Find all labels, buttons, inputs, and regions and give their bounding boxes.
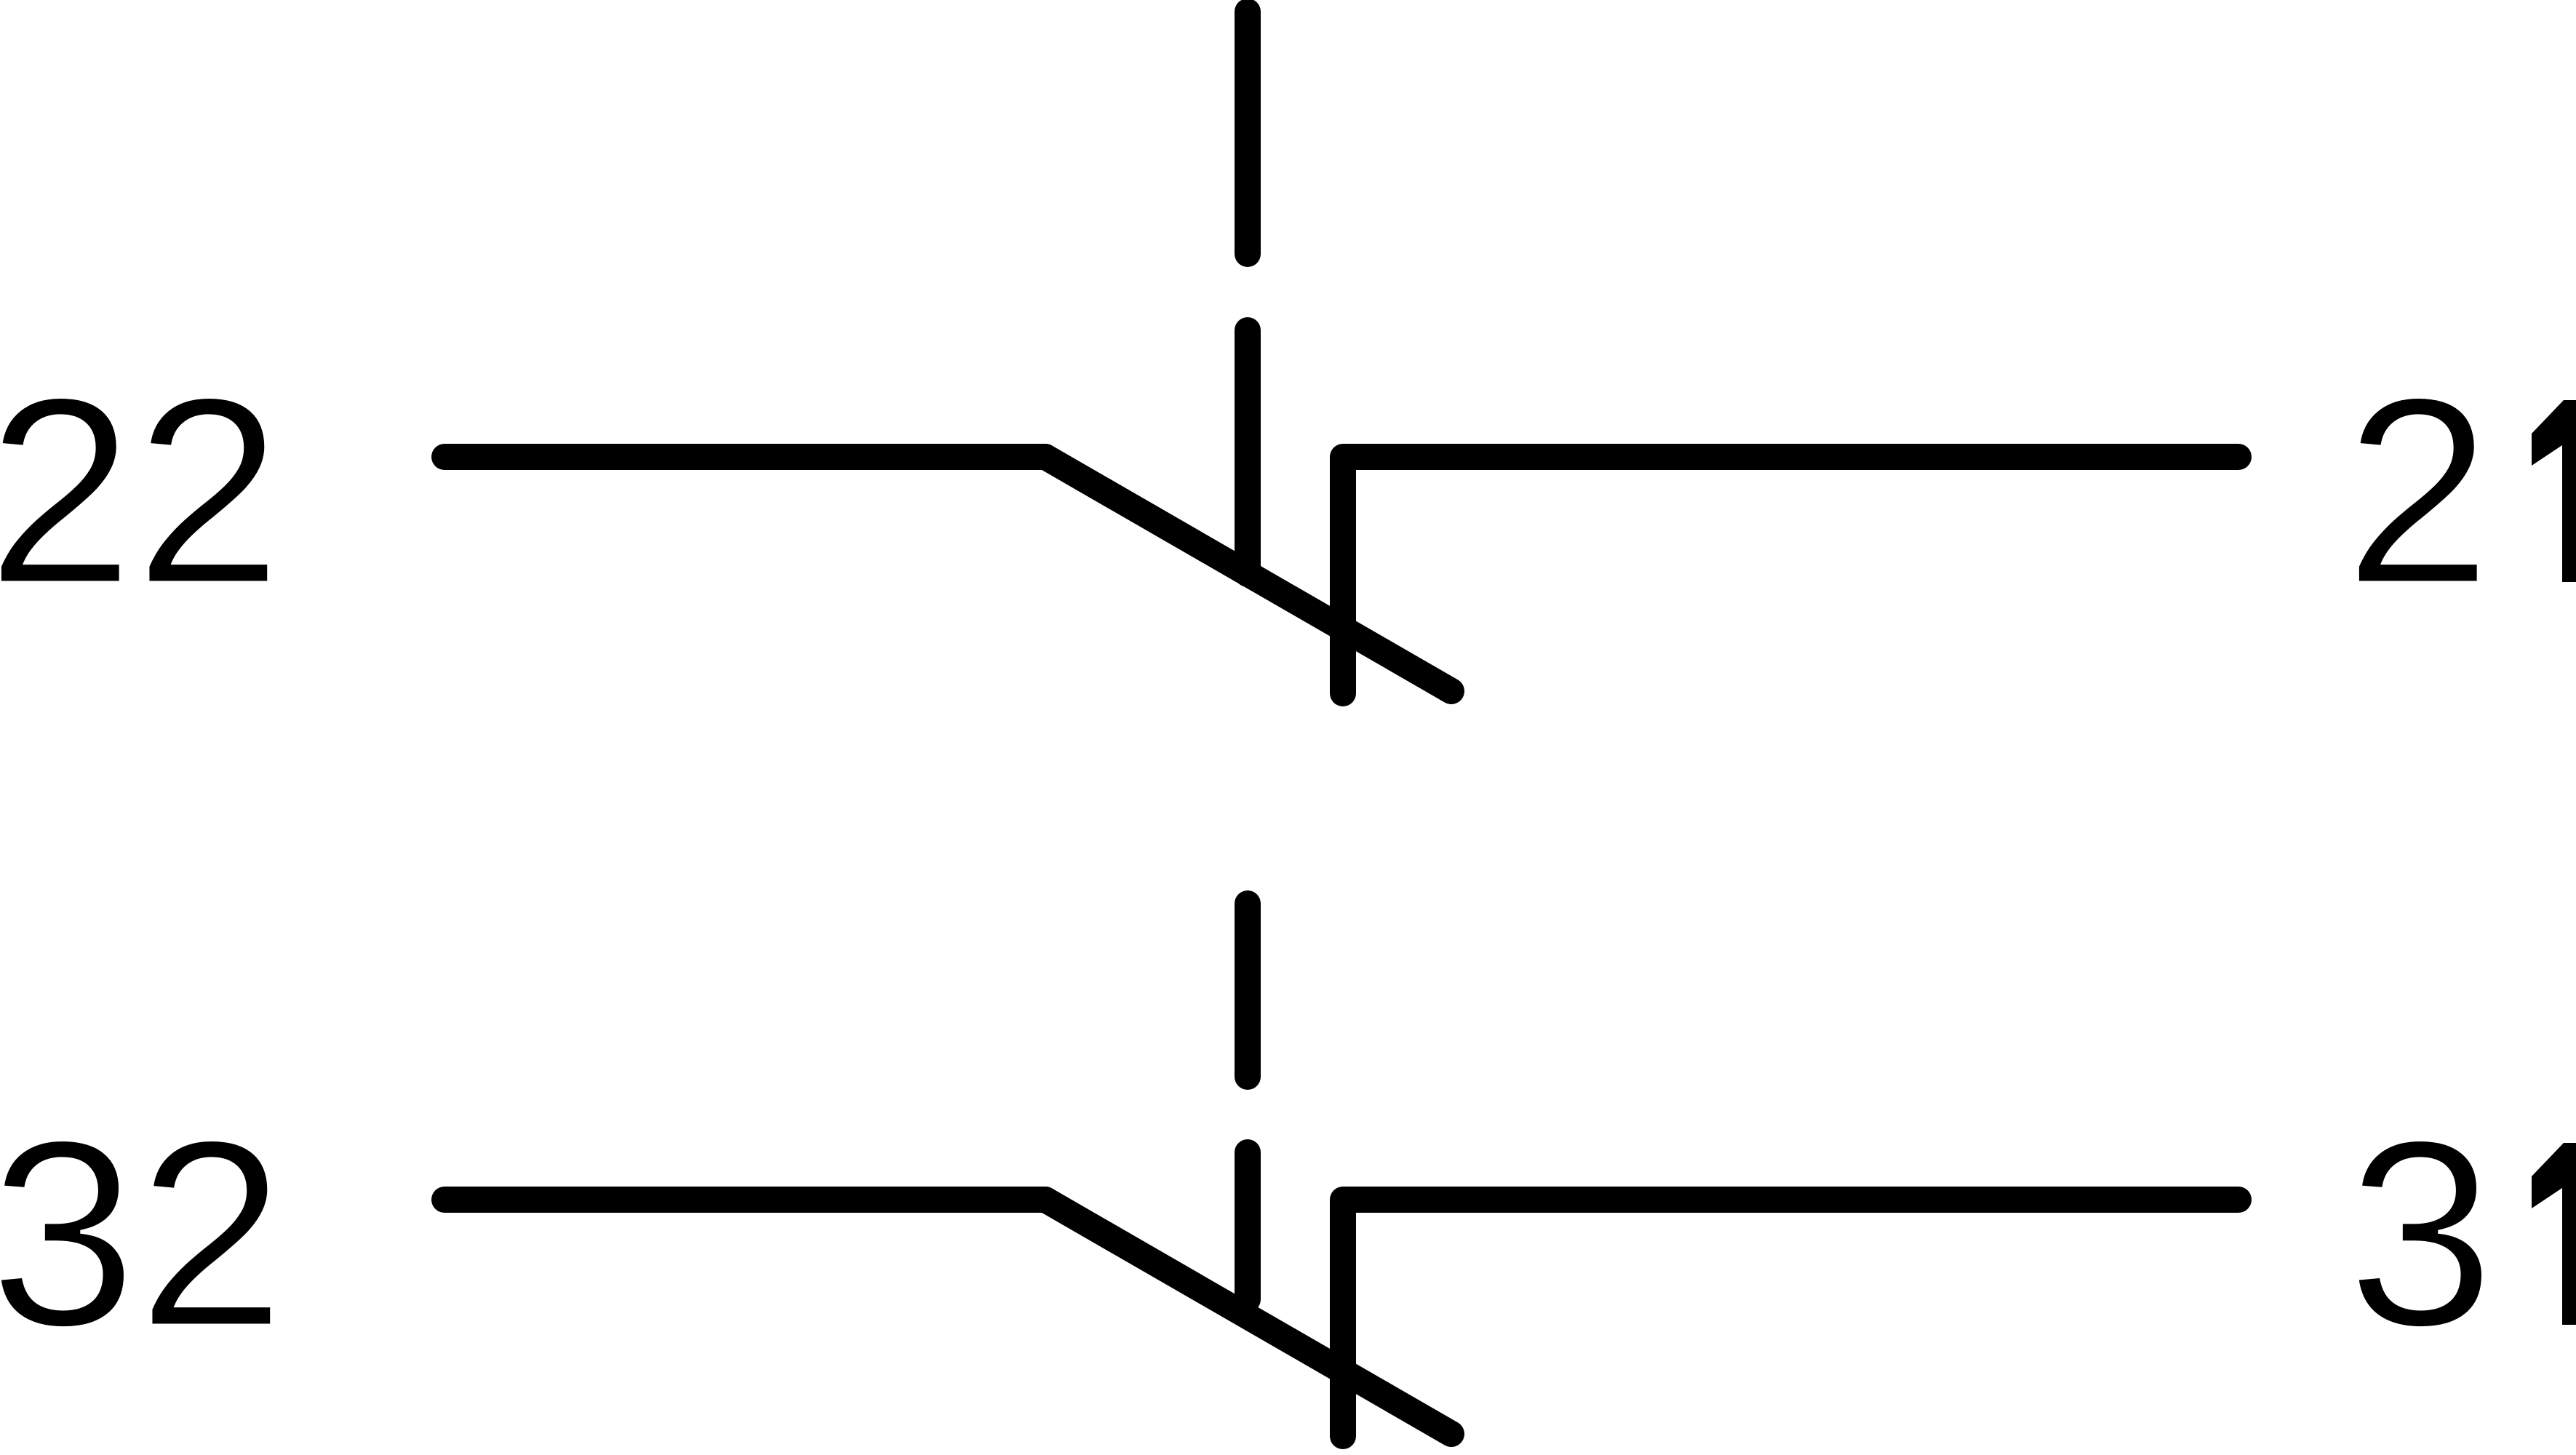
wire: terminal 22 lead	[444, 444, 1045, 470]
wire: terminal 31 lead with fixed-contact hook	[1343, 1200, 2238, 1436]
svg-text:32: 32	[0, 1085, 285, 1382]
actuator dashed link, lower dash (contact 31-32)	[1235, 1152, 1261, 1299]
svg-text:2: 2	[2344, 342, 2492, 639]
wire: terminal 21 lead with fixed-contact hook	[1343, 457, 2238, 693]
contact: moving bridge of NC contact 31-32	[1045, 1200, 1451, 1434]
svg-text:22: 22	[0, 342, 282, 639]
actuator dashed link, upper dash (contact 31-32)	[1235, 904, 1261, 1077]
contact: moving bridge of NC contact 21-22	[1045, 457, 1451, 691]
terminal label 31 (digit 1, clipped at edge)	[2532, 1143, 2576, 1325]
actuator dashed link, upper dash (contact 21-22)	[1235, 12, 1261, 254]
terminal label 21 (digit 1, clipped at edge)	[2532, 400, 2576, 582]
svg-text:3: 3	[2347, 1085, 2495, 1382]
wire: terminal 32 lead	[444, 1187, 1045, 1213]
actuator dashed link, lower dash (contact 21-22)	[1235, 330, 1261, 574]
